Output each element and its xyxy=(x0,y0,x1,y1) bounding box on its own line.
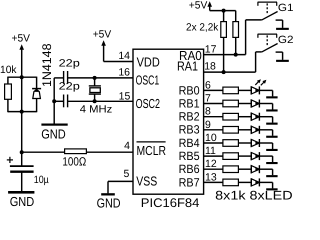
LED 5 (RB4) xyxy=(251,139,272,147)
resistor R2 2,2k xyxy=(233,11,239,55)
svg-text:GND: GND xyxy=(10,194,35,209)
LED 7 (RB6) xyxy=(251,165,272,173)
svg-text:10k: 10k xyxy=(0,64,17,76)
svg-text:13: 13 xyxy=(205,171,217,183)
node: rail bottom junction xyxy=(20,110,24,114)
svg-text:VSS: VSS xyxy=(136,174,157,189)
resistor R1 2,2k xyxy=(221,9,227,73)
svg-text:RB1: RB1 xyxy=(179,96,200,110)
switch G1 xyxy=(258,2,294,30)
resistor 1k (RB1) xyxy=(204,100,252,107)
svg-text:9: 9 xyxy=(205,119,211,131)
svg-text:G2: G2 xyxy=(278,34,294,46)
svg-text:+5V: +5V xyxy=(189,0,208,12)
switch G2 xyxy=(258,34,294,62)
ground (LED 4) xyxy=(266,130,277,138)
wire left rail down xyxy=(21,77,23,152)
ground (LED 1) xyxy=(266,90,277,98)
ground (22p caps) xyxy=(41,124,67,142)
LED 1 (RB0) xyxy=(251,79,272,94)
LED 8 (RB7) xyxy=(251,178,272,186)
svg-text:RB6: RB6 xyxy=(179,162,200,176)
svg-text:17: 17 xyxy=(205,43,217,55)
pin label MCLR xyxy=(137,142,167,158)
node: rail top junction xyxy=(20,75,24,79)
wire caps to ground xyxy=(52,78,56,124)
ground (LED 7) xyxy=(266,169,277,177)
svg-text:14: 14 xyxy=(118,50,130,62)
svg-text:16: 16 xyxy=(118,66,130,78)
svg-text:22p: 22p xyxy=(59,81,80,93)
svg-text:10µ: 10µ xyxy=(34,174,49,186)
ground (LED 2) xyxy=(266,104,277,112)
resistor 100Ω xyxy=(22,149,133,169)
ground (LED 8) xyxy=(266,182,277,190)
svg-text:15: 15 xyxy=(119,90,131,102)
svg-text:GND: GND xyxy=(41,127,65,142)
LED 6 (RB5) xyxy=(251,152,272,160)
svg-text:22p: 22p xyxy=(59,57,80,69)
svg-text:G1: G1 xyxy=(278,2,294,14)
svg-text:GND: GND xyxy=(97,195,121,210)
svg-text:8x1k 8xLED: 8x1k 8xLED xyxy=(215,188,292,202)
svg-text:+5V: +5V xyxy=(12,33,31,45)
svg-text:OSC1: OSC1 xyxy=(136,73,160,88)
resistor 1k (RB0) xyxy=(204,87,252,94)
resistor 1k (RB3) xyxy=(204,127,252,134)
LED 2 (RB1) xyxy=(251,100,272,108)
svg-text:RB3: RB3 xyxy=(179,123,200,137)
svg-text:PIC16F84: PIC16F84 xyxy=(141,196,200,210)
capacitor 22p (OSC2) xyxy=(54,81,133,108)
svg-text:RB4: RB4 xyxy=(179,136,200,150)
svg-text:1N4148: 1N4148 xyxy=(40,43,54,87)
resistor 1k (RB5) xyxy=(204,153,252,160)
IC U1 PIC16F84 body xyxy=(133,49,204,210)
ground (10µ cap) xyxy=(8,191,34,209)
resistor 1k (RB4) xyxy=(204,140,252,147)
svg-text:2x 2,2k: 2x 2,2k xyxy=(186,22,219,34)
ground (LED 6) xyxy=(266,156,277,164)
crystal 4 MHz xyxy=(80,76,113,116)
svg-text:RB7: RB7 xyxy=(179,175,200,189)
resistor 1k (RB2) xyxy=(204,113,252,120)
svg-text:5: 5 xyxy=(123,168,129,180)
resistor 1k (RB7) xyxy=(204,179,252,186)
power +5V (left) xyxy=(12,33,31,78)
svg-text:VDD: VDD xyxy=(137,54,160,69)
power +5V (right) xyxy=(189,0,236,12)
svg-text:10: 10 xyxy=(205,132,217,144)
resistor 10k xyxy=(0,64,37,112)
svg-text:6: 6 xyxy=(205,79,211,91)
node: MCLR junction xyxy=(20,150,24,154)
svg-text:7: 7 xyxy=(205,93,211,105)
wire RA1 net xyxy=(204,52,262,74)
wire VSS to ground xyxy=(108,181,133,193)
svg-text:RB0: RB0 xyxy=(179,83,200,97)
LED 3 (RB2) xyxy=(251,113,272,121)
wire RA0 net xyxy=(204,20,262,57)
ground (LED 5) xyxy=(266,143,277,151)
ground (LED 3) xyxy=(266,117,277,125)
resistor 1k (RB6) xyxy=(204,166,252,173)
capacitor 22p (OSC1) xyxy=(54,57,133,83)
svg-text:18: 18 xyxy=(204,61,216,73)
svg-text:RA1: RA1 xyxy=(177,58,198,73)
svg-text:12: 12 xyxy=(205,158,217,170)
LED 4 (RB3) xyxy=(251,126,272,134)
capacitor 10µ electrolytic xyxy=(7,152,49,191)
svg-text:4 MHz: 4 MHz xyxy=(80,104,113,116)
svg-text:100Ω: 100Ω xyxy=(62,155,86,169)
svg-text:8: 8 xyxy=(205,106,211,118)
svg-text:OSC2: OSC2 xyxy=(136,96,160,111)
svg-text:RB5: RB5 xyxy=(179,149,200,163)
svg-text:11: 11 xyxy=(205,145,216,157)
diode 1N4148 xyxy=(8,43,54,112)
svg-text:RB2: RB2 xyxy=(179,110,200,124)
svg-text:MCLR: MCLR xyxy=(137,143,167,158)
ground (VSS) xyxy=(97,193,121,210)
svg-text:+5V: +5V xyxy=(93,28,112,40)
svg-text:4: 4 xyxy=(124,140,130,152)
power +5V (middle) xyxy=(93,28,133,61)
